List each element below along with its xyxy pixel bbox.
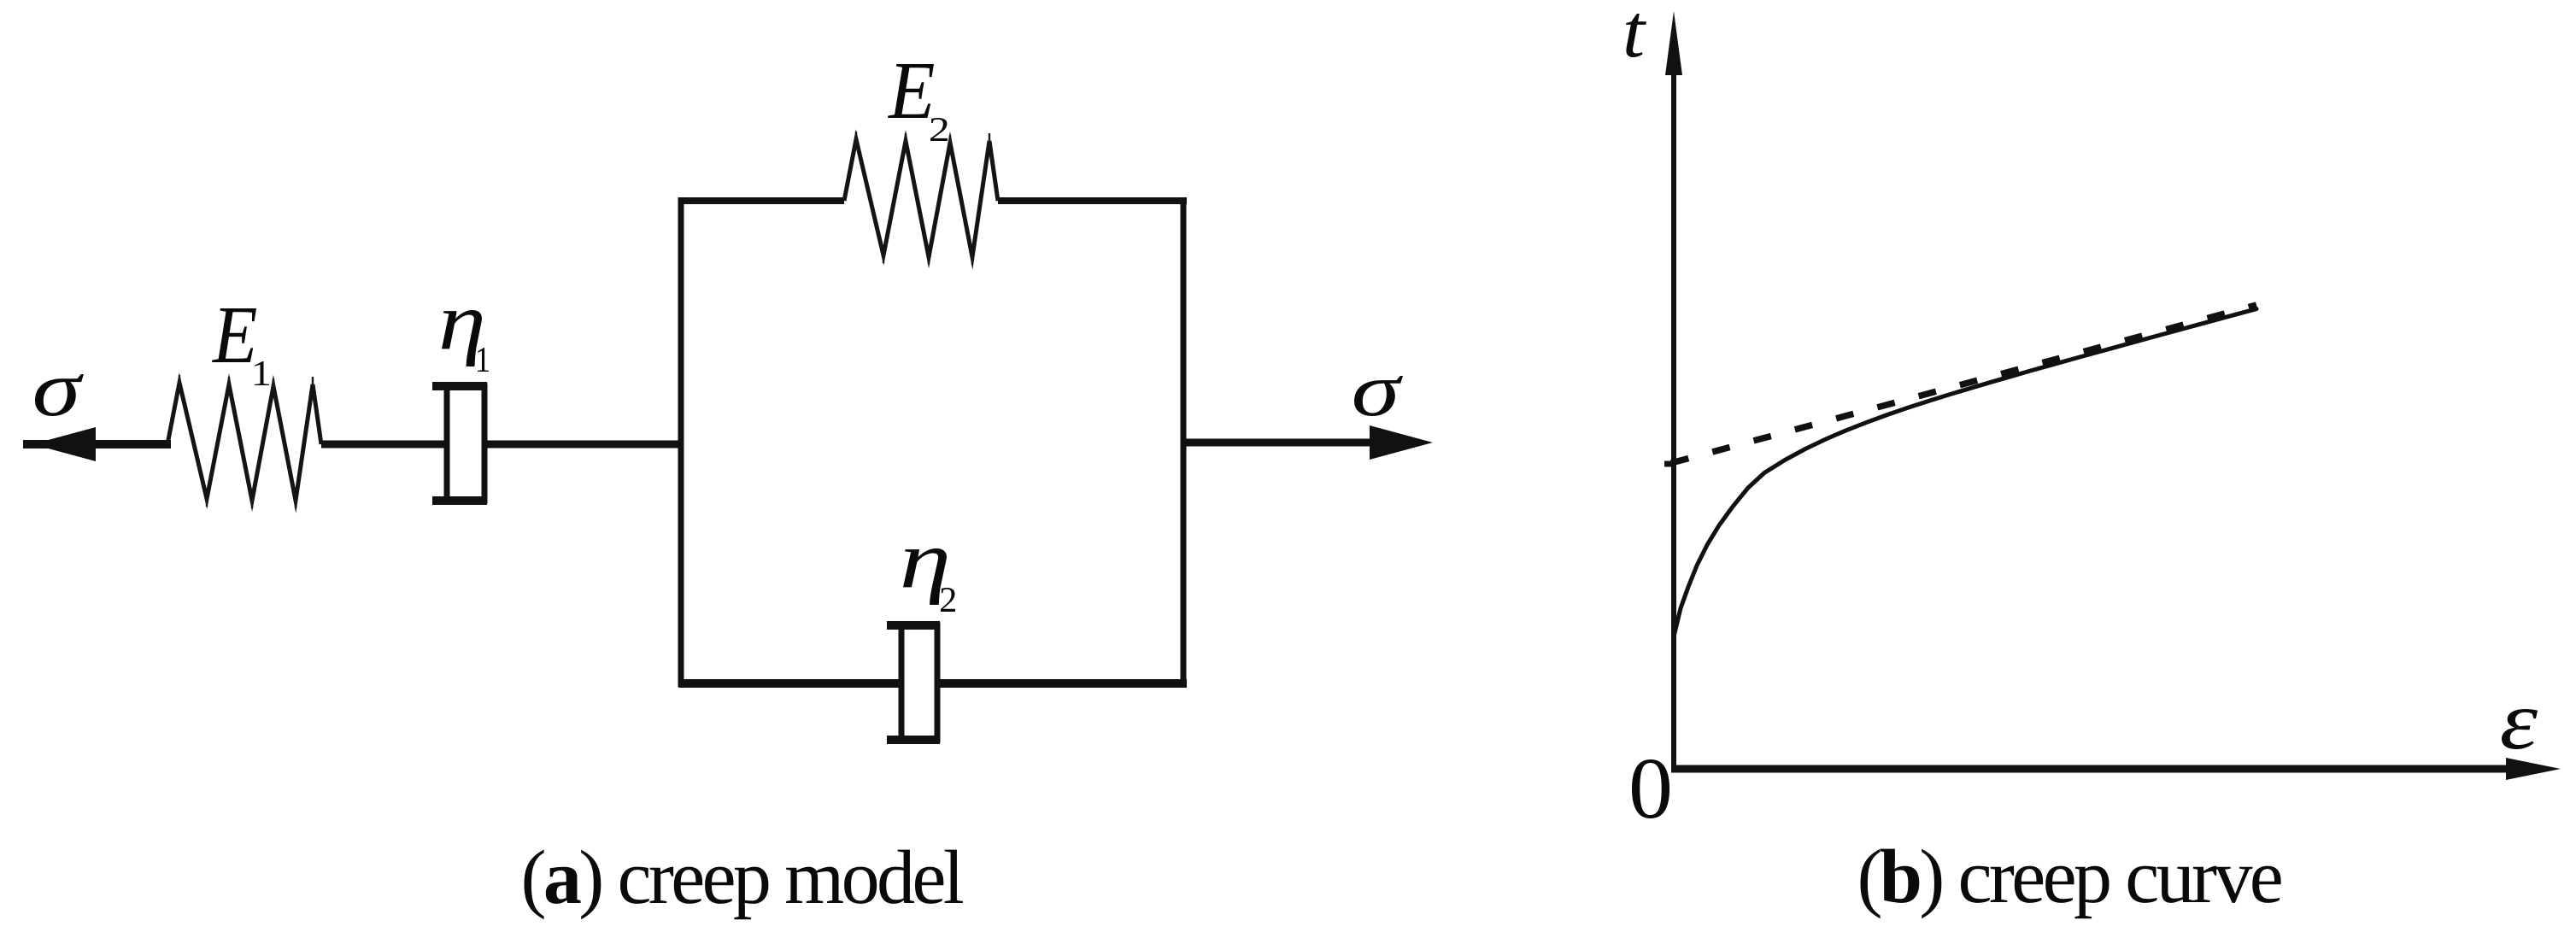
label E1: [212, 308, 256, 362]
spring E2 tip spikes: [856, 132, 989, 265]
dashpot eta1 bottom cap: [432, 496, 487, 505]
parallel box right vertical wire: [1181, 197, 1187, 687]
label eta2: [903, 548, 947, 605]
dashpot eta1 cylinder: [447, 386, 484, 501]
spring E1 tip spikes: [179, 375, 313, 508]
wire dashpot to parallel box: [483, 441, 684, 448]
spring E1: [167, 383, 321, 501]
creep asymptote dashed line: [1671, 305, 2256, 463]
top branch wire right: [998, 197, 1187, 204]
spring E2: [844, 139, 998, 257]
wire spring E1 to dashpot: [321, 441, 449, 448]
epsilon axis horizontal: [1671, 765, 2512, 773]
bottom branch wire left: [678, 679, 903, 688]
label epsilon: [2502, 709, 2538, 749]
label E2: [888, 64, 934, 118]
dashpot eta2 top cap: [887, 621, 940, 630]
t axis vertical: [1671, 68, 1676, 772]
node sigma-left label: [35, 374, 84, 416]
label eta1: [442, 310, 482, 366]
creep curve solid: [1674, 309, 2256, 636]
dashpot eta2 cylinder: [901, 625, 937, 740]
wire box to right arrow: [1183, 439, 1410, 447]
label t: [1626, 14, 1646, 57]
caption (a) creep model: [525, 850, 964, 920]
t-axis tick at asymptote intercept: [1664, 461, 1673, 467]
right stress arrowhead: [1370, 425, 1433, 460]
label 0 origin: [1632, 759, 1669, 818]
dashpot eta2 bottom cap: [887, 736, 940, 744]
wire left arrow shaft: [23, 440, 171, 448]
bottom branch wire right: [936, 679, 1187, 688]
top branch wire left: [678, 197, 844, 204]
t axis arrowhead: [1665, 11, 1682, 75]
left stress arrowhead: [32, 427, 96, 461]
dashpot eta1 top cap: [432, 382, 487, 390]
parallel box left vertical wire: [678, 197, 684, 687]
caption (b) creep curve: [1861, 849, 2281, 919]
node sigma-right label: [1354, 376, 1403, 416]
epsilon axis arrowhead: [2506, 758, 2561, 780]
